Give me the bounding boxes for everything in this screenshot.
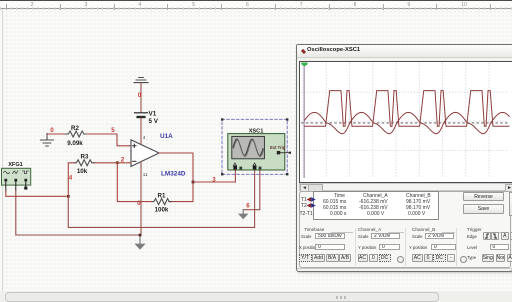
svg-text:10k: 10k: [77, 168, 88, 175]
oscilloscope XSC1 selection dashed box: [222, 119, 287, 174]
battery V1: [135, 113, 148, 117]
wire W9: R3 right to op-amp - input: [94, 162, 131, 164]
resistor R1: [152, 199, 172, 205]
wire W11: XFG1 pin + to node 4 junction: [6, 191, 69, 197]
op-amp U1A triangle: [131, 140, 159, 167]
svg-text:U1A: U1A: [160, 133, 173, 140]
wire W4: V1 bottom to op-amp pin 4: [140, 118, 142, 144]
wire W7: node 3 to oscilloscope channel A: [193, 170, 235, 182]
ground arrow GND4 (below scope): [238, 210, 248, 220]
svg-text:XFG1: XFG1: [8, 162, 23, 168]
svg-text:4: 4: [69, 175, 73, 182]
oscilloscope XSC1 icon body: [228, 134, 285, 170]
wire W1: GND1 to R2 left: [47, 133, 66, 135]
svg-text:9.09k: 9.09k: [67, 140, 83, 147]
junction at ground arrow: [139, 234, 142, 237]
junction at XFG1 output node: [67, 195, 70, 198]
svg-text:0: 0: [50, 127, 54, 134]
wire W3: GND2 to V1 top: [140, 83, 142, 112]
ground GND2 (inverted, above V1): [134, 78, 148, 83]
channel A terminal: [233, 163, 236, 166]
wire W15: scope channel B minus to ground arrow: [243, 170, 260, 210]
wire W6: op-amp output to feedback corner: [159, 153, 193, 202]
XFG1 pins: [6, 180, 26, 191]
svg-text:R2: R2: [71, 125, 79, 132]
op-amp + input mark: [133, 144, 136, 147]
XFG1 waveform icons: [4, 171, 29, 174]
svg-text:5 V: 5 V: [149, 118, 159, 125]
svg-text:6: 6: [246, 203, 250, 210]
svg-text:0: 0: [138, 92, 142, 99]
ground GND1 (left of R2): [41, 134, 54, 147]
svg-text:3: 3: [212, 176, 216, 183]
svg-text:5: 5: [111, 127, 115, 134]
svg-text:Ext Trig: Ext Trig: [270, 145, 286, 150]
function generator XFG1 box: [2, 168, 31, 185]
wire W12+W13: XFG1 output down and right to scope channel B: [68, 170, 254, 228]
svg-text:2: 2: [121, 157, 125, 164]
svg-text:V1: V1: [149, 111, 157, 118]
XSC1 screen sine traces: [233, 139, 263, 155]
XSC1 screen: [232, 136, 265, 158]
Ext Trig pin: [277, 151, 280, 154]
resistor R3: [74, 160, 94, 166]
svg-text:LM324D: LM324D: [161, 171, 186, 178]
channel B minus stub: [259, 167, 262, 170]
svg-text:11: 11: [143, 172, 148, 177]
wire W8: R1 left to inverting input node: [117, 163, 151, 202]
svg-text:R1: R1: [158, 193, 166, 200]
junction at node 2: [116, 161, 119, 164]
wire W2: R2 right to op-amp + input: [86, 134, 131, 146]
wire W5: op-amp pin 11 down to ground junction: [140, 162, 142, 235]
resistor R2: [66, 131, 86, 137]
ground arrow GND3 (bottom center): [134, 235, 145, 250]
svg-text:4: 4: [143, 135, 146, 140]
svg-text:100k: 100k: [155, 207, 169, 214]
channel A minus stub: [239, 167, 242, 170]
channel B terminal: [253, 163, 256, 166]
wire W14: XFG1 common pin to ground junction: [16, 191, 140, 235]
wire W10: R3 left down to XFG1 junction: [68, 163, 74, 197]
junction at output node 3: [192, 181, 195, 184]
svg-text:R3: R3: [81, 154, 89, 161]
op-amp - input mark: [133, 160, 136, 162]
